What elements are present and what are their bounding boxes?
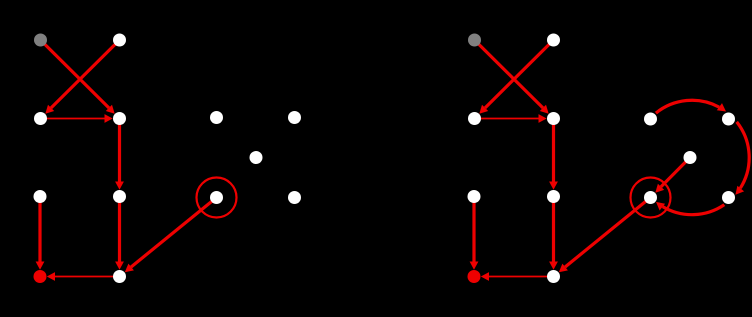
node D2 (right panel) [547, 270, 560, 283]
node A1 gray sink (right panel) [468, 34, 481, 47]
node G2 (right panel) [722, 191, 735, 204]
edge left panel: node B2 -> node C2 (vertical) [115, 119, 124, 190]
node E1 (left panel) [210, 111, 223, 124]
node B1 (left panel) [34, 112, 47, 125]
node F (left panel) [250, 151, 263, 164]
node E2 (left panel) [288, 111, 301, 124]
node E1 (right panel) [644, 113, 657, 126]
right panel: directed graph with cycle arcs [468, 34, 750, 284]
arc edge right panel: node G2 -> node G1 (bottom) [656, 202, 724, 215]
edge right panel: node C1 -> node D1 (vertical) [470, 197, 479, 270]
node C1 (right panel) [468, 190, 481, 203]
edge right panel: node D2 -> node D1 (thin horizontal) [481, 272, 554, 281]
node G2 (left panel) [288, 191, 301, 204]
node B2 (right panel) [547, 112, 560, 125]
node G1 circled (left panel) [210, 191, 223, 204]
edge right panel: gray source -> node B2 (cross arrow) [475, 40, 549, 114]
highlight circle around current node G1 (left panel) [197, 178, 237, 218]
edge left panel: node A2 -> node B1 (cross arrow) [45, 40, 119, 114]
node A2 (left panel) [113, 34, 126, 47]
edge right panel: circled node G1 -> node D2 (long diagonal) [559, 198, 651, 273]
highlight circle around current node G1 (right panel) [631, 178, 671, 218]
edge right panel: node A2 -> node B1 (cross arrow) [479, 40, 553, 114]
edge left panel: node C1 -> node D1 (vertical) [36, 197, 45, 270]
edge right panel: node C2 -> node D2 (vertical) [549, 197, 558, 270]
node B1 (right panel) [468, 112, 481, 125]
node D2 (left panel) [113, 270, 126, 283]
node A2 (right panel) [547, 34, 560, 47]
node C1 (left panel) [34, 190, 47, 203]
edge left panel: node C2 -> node D2 (vertical) [115, 197, 124, 270]
node E2 (right panel) [722, 113, 735, 126]
arc edge right panel: node E1 -> node E2 (over top) [656, 100, 726, 113]
node C2 (right panel) [547, 190, 560, 203]
edge right panel: node B1 -> node B2 (thin horizontal) [475, 114, 547, 123]
node B2 (left panel) [113, 112, 126, 125]
node F (right panel) [684, 151, 697, 164]
edge left panel: node B1 -> node B2 (thin horizontal) [41, 114, 113, 123]
edge left panel: node D2 -> node D1 (thin horizontal) [47, 272, 120, 281]
arc edge right panel: node E2 -> node G2 (right side) [735, 122, 749, 195]
node A1 gray sink (left panel) [34, 34, 47, 47]
node G1 circled (right panel) [644, 191, 657, 204]
edge right panel: node B2 -> node C2 (vertical) [549, 119, 558, 190]
edge left panel: circled node G1 -> node D2 (long diagonal) [125, 198, 217, 273]
node C2 (left panel) [113, 190, 126, 203]
node D1 red chip (left panel) [34, 270, 47, 283]
edge left panel: gray source -> node B2 (cross arrow) [41, 40, 115, 114]
node D1 red chip (right panel) [468, 270, 481, 283]
edge right panel: node F -> circled node G1 [655, 158, 690, 193]
left panel: directed graph before cycle traversal [34, 34, 302, 284]
